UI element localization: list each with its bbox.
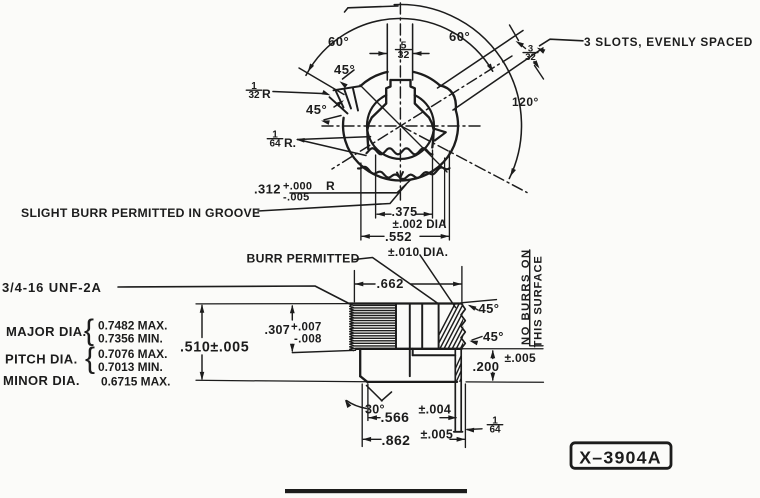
svg-text:.312: .312	[254, 182, 281, 197]
tick at edge1 end	[510, 25, 519, 41]
svg-text:32: 32	[525, 52, 536, 63]
top slot left edge / extension line	[386, 24, 388, 80]
dim 5/32 slot width at top	[370, 53, 386, 55]
svg-text:60°: 60°	[449, 29, 470, 44]
pin bottom tick	[454, 431, 463, 433]
svg-text:.200: .200	[473, 359, 500, 374]
svg-text:0.7356 MIN.: 0.7356 MIN.	[98, 332, 163, 346]
upper-left notch rail A	[334, 86, 362, 90]
svg-text:0.7482 MAX.: 0.7482 MAX.	[98, 319, 167, 333]
svg-text:.552: .552	[385, 229, 412, 244]
dim .862: extension lines	[361, 384, 363, 447]
svg-text:45°: 45°	[334, 62, 355, 77]
side view mid horizontal line	[356, 348, 462, 350]
2-8 oclock centerline	[332, 56, 512, 169]
upper-left notch chamfer stroke 3	[353, 89, 358, 111]
svg-text:60°: 60°	[328, 34, 349, 49]
dim .375: extension lines	[375, 155, 377, 218]
end face torn wavy right edge	[461, 304, 465, 349]
bore step corner	[412, 349, 414, 355]
svg-text:0.7076 MAX.: 0.7076 MAX.	[98, 347, 167, 361]
svg-text:45°: 45°	[483, 329, 504, 344]
slot width dim arrow upper	[520, 44, 526, 49]
pin right line	[460, 349, 462, 432]
svg-text:.375: .375	[392, 205, 418, 219]
svg-text:+.007: +.007	[291, 322, 322, 334]
dim .662: extension lines	[353, 271, 355, 302]
svg-text:BURR PERMITTED: BURR PERMITTED	[247, 252, 360, 266]
threads (external thread lines)	[350, 304, 354, 351]
slot width dim arrow lower	[534, 62, 538, 67]
svg-text:0.7013 MIN.: 0.7013 MIN.	[98, 360, 163, 374]
top view 2-oclock slot bump	[440, 85, 456, 110]
inner wavy groove line (upper scallops)	[367, 148, 433, 154]
svg-text:45°: 45°	[479, 301, 500, 316]
svg-text:.510±.005: .510±.005	[180, 340, 249, 356]
outer wavy groove line (lower scallops)	[358, 167, 450, 179]
svg-text:-.008: -.008	[294, 334, 322, 346]
pin left line	[454, 349, 456, 432]
svg-text:R.: R.	[284, 136, 296, 150]
svg-text:{: {	[85, 342, 95, 375]
upper-left notch rail B	[330, 97, 348, 113]
svg-text:.662: .662	[377, 276, 404, 291]
120-arc end arrowhead	[510, 168, 516, 177]
svg-text:32: 32	[248, 90, 260, 101]
dim .566: dimension line and arrows	[369, 417, 380, 419]
svg-text:32: 32	[398, 49, 410, 61]
upper-left notch chamfer stroke 2	[345, 90, 352, 109]
dim .307: vertical dimension line	[291, 306, 293, 320]
60-degree arc right arrowhead	[487, 64, 493, 73]
svg-text:120°: 120°	[512, 95, 539, 109]
side view top edge	[350, 302, 462, 304]
svg-text:R: R	[326, 179, 335, 193]
vertical centerline	[399, 3, 401, 200]
inner circle	[367, 95, 434, 159]
svg-text:.307: .307	[265, 323, 291, 337]
svg-text:.862: .862	[382, 432, 411, 448]
svg-text:.566: .566	[381, 409, 410, 425]
svg-text:64: 64	[489, 425, 501, 436]
dim .662: dimension line and arrows	[355, 283, 375, 285]
bore vertical line 2	[421, 304, 423, 349]
upper-left notch chamfer stroke 1	[336, 92, 344, 108]
svg-text:45°: 45°	[306, 102, 327, 117]
60-left boundary extension line	[299, 68, 344, 95]
top view outer circle arc (right side from slot to 2-oclock notch)	[413, 72, 439, 85]
dim .375: dimension line and arrows	[377, 213, 391, 215]
svg-text:MINOR DIA.: MINOR DIA.	[3, 373, 80, 388]
dim .510: extension lines	[196, 303, 350, 305]
chamfer extension line for 30 deg	[367, 386, 383, 401]
svg-text:±.005: ±.005	[421, 428, 454, 442]
top view outer circle arc (main, around bottom to upper-left notch)	[343, 110, 458, 180]
svg-text:THIS SURFACE: THIS SURFACE	[533, 255, 545, 347]
drawing number box X-3904A	[571, 443, 671, 469]
dim .307: lower reference line	[292, 350, 355, 352]
slot width extension edge 2 (2-oclock)	[453, 48, 543, 110]
bottom reference bar	[285, 489, 467, 493]
svg-text:±.004: ±.004	[419, 403, 452, 417]
svg-text:MAJOR DIA.: MAJOR DIA.	[6, 324, 87, 339]
lower-left block of side view	[359, 349, 361, 376]
top view outer circle arc (upper-left segment)	[361, 72, 388, 86]
svg-text:PITCH DIA.: PITCH DIA.	[5, 352, 78, 367]
dim .552: extension lines	[360, 163, 362, 240]
note underline L	[530, 250, 543, 346]
dim .862: dimension line and arrows	[363, 438, 381, 440]
svg-text:X–3904A: X–3904A	[579, 447, 662, 467]
45-left measuring tick	[324, 116, 341, 120]
bore vertical line 1	[409, 304, 411, 377]
svg-text:3 SLOTS, EVENLY SPACED: 3 SLOTS, EVENLY SPACED	[584, 35, 753, 49]
svg-text:3/4-16 UNF-2A: 3/4-16 UNF-2A	[2, 280, 102, 295]
4 oclock centerline	[401, 126, 527, 193]
dim .510: vertical dimension line	[201, 306, 203, 338]
60-degree arc left arrowhead	[308, 64, 314, 73]
dim .566: extension line	[367, 384, 369, 421]
leader 3 slots	[540, 39, 584, 46]
svg-text:SLIGHT BURR PERMITTED IN GROOV: SLIGHT BURR PERMITTED IN GROOVE	[21, 206, 260, 220]
top slot right edge / extension line	[412, 24, 414, 80]
60-degree dimension arc	[306, 18, 493, 75]
horizontal centerline	[322, 125, 480, 127]
extra groove extension line	[444, 158, 446, 227]
svg-text:64: 64	[269, 139, 281, 150]
dim .552: dimension line and arrows	[362, 235, 384, 237]
bore step horizontal	[413, 354, 456, 356]
slot width extension edge 1 (2-oclock)	[438, 31, 524, 89]
right side notch in section	[434, 129, 446, 141]
svg-text:R: R	[262, 87, 271, 101]
groove tip pointer	[397, 172, 403, 178]
inner bottle profile (keyway section)	[391, 80, 434, 148]
120-degree dimension arc	[348, 6, 398, 8]
thread root shoulder vertical	[395, 304, 397, 349]
dim .200 arrows and label	[492, 351, 494, 359]
svg-text:±.010 DIA.: ±.010 DIA.	[388, 245, 448, 259]
tick at edge2 end	[535, 66, 544, 80]
45-degree diagonal line	[360, 85, 447, 172]
svg-text:±.005: ±.005	[505, 351, 536, 365]
svg-text:0.6715 MAX.: 0.6715 MAX.	[101, 374, 170, 388]
